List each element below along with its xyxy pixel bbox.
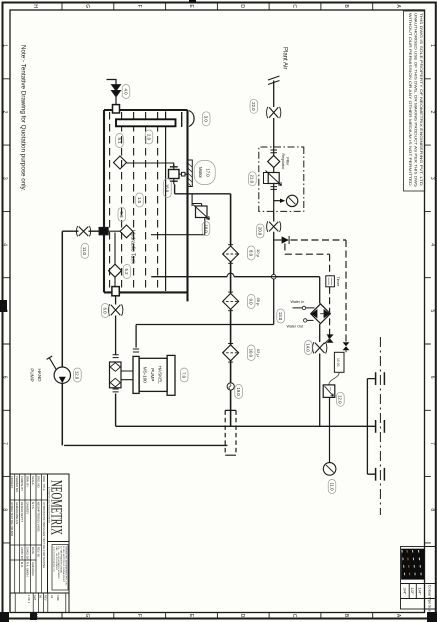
svg-text:12.0: 12.0 (75, 371, 80, 380)
svg-text:7.0: 7.0 (182, 372, 187, 379)
svg-text:05 µ: 05 µ (256, 298, 261, 307)
svg-text:8.0: 8.0 (248, 250, 253, 257)
svg-text:1: 1 (429, 44, 435, 47)
svg-text:H: H (32, 614, 38, 618)
svg-text:D: D (239, 614, 245, 618)
svg-text:Hydraulic Tank: Hydraulic Tank (130, 230, 136, 264)
svg-text:2.0: 2.0 (146, 134, 151, 141)
svg-text:Note:- Tentative Drawing for Q: Note:- Tentative Drawing for Quotation p… (20, 45, 27, 191)
svg-text:11.0: 11.0 (329, 482, 334, 491)
svg-text:5: 5 (429, 310, 435, 313)
svg-text:PUMP: PUMP (150, 368, 155, 381)
svg-text:D: D (239, 4, 245, 8)
svg-text:22.0: 22.0 (251, 102, 256, 111)
svg-text:1/4": 1/4" (417, 588, 422, 596)
svg-text:UNAUTHORISED USE OF THIS DWG,: UNAUTHORISED USE OF THIS DWG, OR MAKING … (414, 13, 419, 187)
svg-text:16.0: 16.0 (165, 184, 170, 193)
svg-text:3.0: 3.0 (204, 116, 209, 123)
svg-text:PH : +91-120-4234561, 4234562: PH : +91-120-4234561, 4234562 (57, 547, 59, 580)
svg-text:3/4": 3/4" (402, 588, 407, 596)
svg-text:C: C (291, 614, 297, 618)
svg-text:Pipe Size: Pipe Size (427, 597, 431, 611)
svg-text:Water Out: Water Out (287, 325, 304, 329)
svg-text:8: 8 (2, 508, 8, 511)
svg-text:NEOMETRIX ENGINEERING PVT. LTD: NEOMETRIX ENGINEERING PVT. LTD. (64, 547, 66, 587)
svg-text:10.00: 10.00 (336, 358, 340, 367)
svg-text:HASKEL: HASKEL (158, 366, 163, 385)
svg-text:Colour: Colour (427, 585, 432, 597)
svg-text:5.2: 5.2 (124, 269, 129, 276)
svg-text:6.0: 6.0 (103, 308, 108, 315)
svg-text:1: 1 (2, 44, 8, 47)
svg-text:9.0: 9.0 (248, 299, 253, 306)
svg-text:WITHOUT OUR PERMISSION OR ANY: WITHOUT OUR PERMISSION OR ANY OTHER MEDI… (408, 13, 413, 187)
svg-text:10.0: 10.0 (248, 349, 253, 358)
svg-text:5.3: 5.3 (119, 212, 124, 219)
svg-text:4: 4 (2, 243, 8, 246)
svg-text:5.1: 5.1 (117, 138, 122, 145)
svg-text:2: 2 (2, 111, 8, 114)
svg-text:18.0: 18.0 (203, 224, 208, 233)
svg-text:F: F (136, 5, 142, 8)
svg-text:Timer: Timer (336, 277, 340, 287)
svg-text:7: 7 (429, 442, 435, 445)
svg-text:Water In: Water In (291, 300, 305, 304)
svg-text:12.0: 12.0 (338, 395, 343, 404)
svg-text:10 µ: 10 µ (256, 249, 261, 258)
svg-text:THIS DWG IS SOLE PROPERTY OF N: THIS DWG IS SOLE PROPERTY OF NEOMETRIX E… (419, 13, 424, 187)
svg-text:H: H (32, 4, 38, 8)
svg-text:4: 4 (429, 243, 435, 246)
svg-text:20.0: 20.0 (258, 227, 263, 236)
svg-text:NEOMETRIX: NEOMETRIX (48, 480, 65, 535)
svg-text:3: 3 (429, 177, 435, 180)
svg-text:5: 5 (2, 310, 8, 313)
svg-text:Filter: Filter (285, 157, 289, 166)
svg-text:4.0: 4.0 (123, 89, 128, 96)
svg-text:02 µ: 02 µ (256, 349, 261, 358)
svg-text:1/2": 1/2" (410, 588, 415, 596)
svg-text:Motor: Motor (198, 167, 203, 179)
svg-text:17.0: 17.0 (205, 168, 210, 177)
svg-text:6: 6 (429, 376, 435, 379)
svg-text:2: 2 (429, 111, 435, 114)
svg-text:6: 6 (2, 376, 8, 379)
svg-text:3: 3 (2, 177, 8, 180)
svg-text:PUMP: PUMP (30, 368, 35, 381)
svg-text:G: G (84, 614, 90, 618)
svg-text:MS-100: MS-100 (143, 367, 148, 384)
svg-text:C: C (291, 4, 297, 8)
svg-text:1.0: 1.0 (137, 197, 142, 204)
svg-text:HAND: HAND (37, 368, 42, 382)
svg-text:Plant Air: Plant Air (282, 47, 288, 69)
svg-text:21.0: 21.0 (250, 175, 255, 184)
svg-text:13.0: 13.0 (278, 312, 283, 321)
svg-text:Regulator: Regulator (281, 154, 285, 171)
svg-text:11.0: 11.0 (82, 247, 87, 256)
svg-text:19.0: 19.0 (236, 387, 241, 396)
svg-text:8: 8 (429, 508, 435, 511)
svg-text:7: 7 (2, 442, 8, 445)
svg-text:14.0: 14.0 (306, 343, 311, 352)
svg-text:G: G (84, 4, 90, 8)
svg-text:F: F (136, 614, 142, 617)
